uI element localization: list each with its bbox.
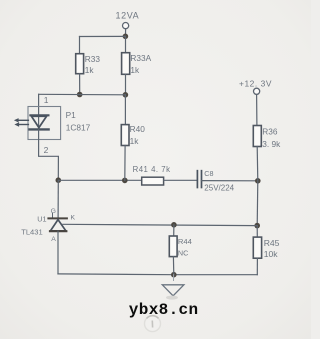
resistor R40 bbox=[121, 125, 129, 146]
wire R40 top lead bbox=[124, 95, 126, 125]
ground symbol bbox=[162, 285, 184, 296]
svg-text:R45: R45 bbox=[264, 238, 280, 248]
wire TL431 stem bbox=[57, 180, 59, 218]
svg-text:2: 2 bbox=[44, 145, 49, 155]
wire R44 top lead bbox=[173, 225, 175, 236]
watermark badge glyph bbox=[151, 321, 153, 328]
resistor R33A bbox=[122, 53, 130, 75]
wire ground row bbox=[58, 273, 257, 276]
wire terminal to R36 bbox=[256, 95, 258, 126]
svg-text:25V/224: 25V/224 bbox=[204, 183, 234, 192]
wire R45 top lead bbox=[256, 226, 258, 238]
wire R45 bottom lead bbox=[256, 258, 258, 275]
svg-text:C8: C8 bbox=[204, 169, 213, 178]
terminal +12.3V bbox=[254, 88, 260, 94]
svg-text:1C817: 1C817 bbox=[66, 123, 91, 133]
shunt regulator U1 cathode bar bbox=[48, 217, 67, 219]
svg-text:1k: 1k bbox=[85, 65, 95, 75]
svg-text:A: A bbox=[51, 236, 56, 243]
wire R41 to C8 bbox=[164, 179, 198, 181]
svg-text:R36: R36 bbox=[262, 126, 278, 136]
wire R33 top lead bbox=[79, 37, 81, 54]
resistor R41 bbox=[142, 177, 164, 185]
wire anode lead bbox=[57, 231, 59, 274]
node A junction bbox=[123, 34, 129, 40]
node D junction bbox=[56, 177, 62, 183]
wire feedback row left bbox=[58, 179, 141, 181]
node F junction bbox=[255, 178, 261, 184]
op-to-coupler P1 body box bbox=[28, 107, 61, 140]
svg-text:12VA: 12VA bbox=[116, 10, 140, 20]
svg-text:1k: 1k bbox=[130, 136, 140, 146]
terminal 12VA bbox=[123, 23, 129, 29]
svg-text:NC: NC bbox=[178, 248, 188, 257]
light arrow 2 bbox=[18, 124, 28, 126]
wire opto pin 1 lead bbox=[38, 94, 40, 129]
ref tick (TL431) bbox=[52, 214, 54, 218]
svg-text:R33A: R33A bbox=[130, 53, 151, 63]
wire node F to node G bbox=[256, 181, 259, 226]
resistor R44 bbox=[169, 236, 177, 257]
watermark badge circle bbox=[145, 316, 161, 332]
svg-text:K: K bbox=[71, 215, 76, 222]
light arrow 1 bbox=[18, 119, 29, 121]
wire R33A bottom lead bbox=[125, 74, 127, 95]
svg-text:R41 4. 7k: R41 4. 7k bbox=[133, 165, 171, 174]
node C junction bbox=[123, 92, 129, 98]
node E junction (R40 bottom) bbox=[122, 178, 128, 184]
svg-text:TL431: TL431 bbox=[21, 228, 43, 237]
wire mid row to opto pin 1 bbox=[39, 93, 126, 96]
wire R40 bottom lead bbox=[124, 146, 126, 181]
svg-text:U1: U1 bbox=[37, 215, 46, 224]
wire R36 bottom lead bbox=[256, 147, 259, 181]
LED anode bar (P1) bbox=[30, 114, 48, 116]
node G junction bbox=[254, 223, 260, 229]
wire opto pin 2 lead bbox=[39, 129, 59, 180]
ground stem bbox=[173, 275, 175, 281]
resistor R45 bbox=[253, 237, 261, 258]
capacitor C8 left plate bbox=[196, 171, 198, 188]
wire cathode row bbox=[63, 224, 257, 225]
resistor R36 bbox=[253, 126, 261, 147]
node I junction (ground) bbox=[171, 272, 177, 278]
svg-text:3. 9k: 3. 9k bbox=[262, 139, 281, 149]
svg-text:1k: 1k bbox=[130, 65, 140, 75]
wire R33 bottom lead bbox=[79, 74, 81, 95]
svg-text:10k: 10k bbox=[264, 249, 279, 259]
LED cathode bar (P1) bbox=[30, 128, 49, 130]
svg-text:+12. 3V: +12. 3V bbox=[239, 79, 272, 89]
wire R33A top lead bbox=[125, 36, 127, 52]
svg-text:P1: P1 bbox=[66, 110, 77, 120]
node B junction bbox=[77, 92, 83, 98]
capacitor C8 right plate bbox=[201, 171, 203, 188]
node H junction (R44 top) bbox=[171, 222, 177, 228]
resistor R33 bbox=[76, 54, 84, 74]
wire C8 to node F bbox=[202, 180, 258, 182]
svg-text:1: 1 bbox=[44, 95, 49, 105]
LED triangle (P1) bbox=[31, 116, 46, 127]
svg-text:R40: R40 bbox=[130, 124, 146, 134]
wire terminal to node A bbox=[125, 29, 127, 37]
shunt regulator U1 triangle bbox=[50, 220, 66, 231]
svg-text:ybx8.cn: ybx8.cn bbox=[129, 301, 199, 319]
svg-text:R33: R33 bbox=[85, 54, 101, 64]
watermark smudge bbox=[166, 296, 178, 300]
svg-text:G: G bbox=[51, 208, 56, 215]
wire top row bbox=[80, 35, 126, 37]
wire R44 bottom lead bbox=[172, 257, 174, 275]
shunt regulator U1 anode bar bbox=[50, 230, 66, 232]
svg-text:R44: R44 bbox=[178, 237, 192, 246]
